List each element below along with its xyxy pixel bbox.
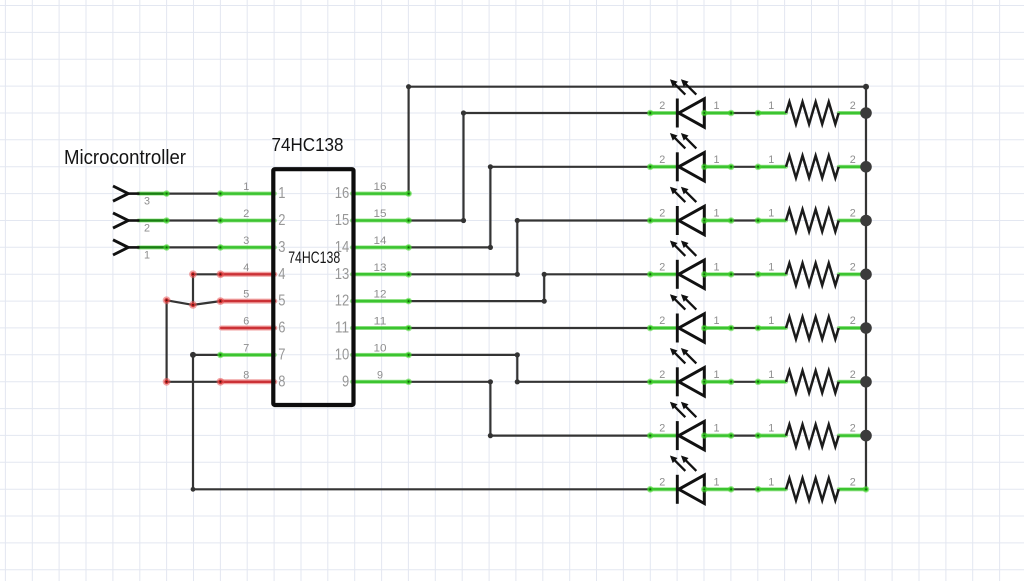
input arrow J2 (microcontroller pin) <box>113 213 140 228</box>
svg-text:74HC138: 74HC138 <box>272 134 344 155</box>
svg-text:1: 1 <box>713 261 719 273</box>
svg-text:2: 2 <box>850 154 856 166</box>
svg-text:10: 10 <box>335 347 350 364</box>
svg-text:11: 11 <box>374 316 387 328</box>
IC pin 10 leg <box>352 353 409 357</box>
wire red-net junction C down to junction D <box>166 300 168 382</box>
svg-text:2: 2 <box>659 154 665 166</box>
svg-text:1: 1 <box>713 369 719 381</box>
bend dot LED8 wire corner <box>191 487 196 492</box>
wire pin 9 (Y6) to LED7 <box>409 382 651 436</box>
svg-text:16: 16 <box>335 185 350 202</box>
IC pin 3 leg <box>220 245 274 249</box>
svg-text:4: 4 <box>243 262 249 274</box>
IC pin 14 leg <box>352 245 409 249</box>
green terminal pin 15 wire end <box>405 217 412 224</box>
svg-text:16: 16 <box>374 181 387 193</box>
green terminal LED3 anode <box>647 217 654 224</box>
svg-text:2: 2 <box>850 369 856 381</box>
wire red-net junction A to pin 4 wire end <box>193 273 220 275</box>
green terminal J3 leg end <box>163 244 170 251</box>
green terminal pin 12 wire end <box>405 298 412 305</box>
wire red-net junction C to junction B <box>167 300 193 305</box>
green terminal LED8 cathode pin <box>701 486 708 493</box>
svg-text:2: 2 <box>659 261 665 273</box>
svg-text:1: 1 <box>768 261 774 273</box>
green terminal pin 7 wire end <box>217 352 224 359</box>
input arrow J3 (microcontroller pin) <box>113 240 140 255</box>
wire input A2 to pin 3 <box>167 246 221 248</box>
green terminal pin 2 wire end <box>217 217 224 224</box>
green terminal LED5 wire end <box>728 325 735 332</box>
svg-text:12: 12 <box>374 289 387 301</box>
wire LED3 cathode to R3 <box>731 219 758 221</box>
wire pin 7 (Y7) to junction <box>193 354 220 356</box>
svg-text:74HC138: 74HC138 <box>288 249 340 267</box>
svg-text:2: 2 <box>659 476 665 488</box>
green terminal LED2 wire end <box>728 164 735 171</box>
wire input A0 to pin 1 <box>167 193 221 195</box>
IC U1 74HC138 body <box>273 169 353 405</box>
green terminal LED5 anode <box>647 325 654 332</box>
bend dot route 6 <box>515 218 520 223</box>
green terminal LED6 anode <box>647 379 654 386</box>
svg-text:2: 2 <box>659 423 665 435</box>
svg-text:2: 2 <box>659 208 665 220</box>
green terminal pin 1 wire end <box>217 190 224 197</box>
IC pin 12 leg <box>352 299 409 303</box>
svg-text:5: 5 <box>243 289 249 301</box>
IC pin 15 leg <box>352 218 409 222</box>
red terminal wire end <box>217 270 225 278</box>
svg-text:9: 9 <box>342 373 349 390</box>
wire LED4 cathode to R4 <box>731 273 758 275</box>
svg-text:6: 6 <box>243 316 249 328</box>
svg-text:2: 2 <box>243 208 249 220</box>
green terminal LED5 cathode pin <box>701 325 708 332</box>
svg-text:2: 2 <box>850 261 856 273</box>
svg-text:1: 1 <box>768 476 774 488</box>
red terminal wire end <box>217 297 225 305</box>
wire pin 11 (Y4) to LED5 <box>409 327 651 329</box>
red junction B <box>189 301 197 309</box>
svg-text:15: 15 <box>335 212 350 229</box>
LED8 <box>650 456 731 504</box>
resistor R6 <box>758 371 866 393</box>
svg-text:2: 2 <box>659 369 665 381</box>
svg-text:8: 8 <box>278 373 285 390</box>
svg-text:8: 8 <box>243 369 249 381</box>
IC pin 4 leg (E1, red) <box>220 272 274 277</box>
red junction D <box>163 378 171 386</box>
green terminal LED2 cathode pin <box>701 164 708 171</box>
resistor R2 <box>758 156 866 178</box>
IC pin 6 leg (E3, red stub) <box>221 326 275 331</box>
svg-text:1: 1 <box>144 249 150 261</box>
green terminal LED4 wire end <box>728 271 735 278</box>
svg-text:2: 2 <box>659 100 665 112</box>
bend dot top rail right corner <box>863 84 869 90</box>
bend dot route 10 <box>515 379 520 384</box>
svg-text:2: 2 <box>850 476 856 488</box>
svg-text:2: 2 <box>278 212 285 229</box>
svg-text:7: 7 <box>278 347 285 364</box>
wire LED1 cathode to R1 <box>731 112 758 114</box>
red junction A <box>189 270 197 278</box>
wire pin 16 VCC up to top rail <box>409 87 866 194</box>
svg-text:9: 9 <box>377 369 383 381</box>
wire pin 14 (Y1) to LED2 <box>409 167 651 248</box>
svg-text:Microcontroller: Microcontroller <box>64 146 186 169</box>
LED6 <box>650 348 731 396</box>
green terminal LED7 anode <box>647 432 654 439</box>
IC pin 13 leg <box>352 272 409 276</box>
green terminal R4 pin 1 <box>755 271 762 278</box>
green terminal LED3 cathode pin <box>701 217 708 224</box>
svg-text:11: 11 <box>335 320 350 337</box>
svg-text:1: 1 <box>768 369 774 381</box>
LED7 <box>650 402 731 450</box>
svg-text:13: 13 <box>335 266 350 283</box>
wire LED2 cathode to R2 <box>731 166 758 168</box>
green terminal pin 11 wire end <box>405 325 412 332</box>
wire LED8 cathode to R8 <box>731 488 758 490</box>
green terminal R7 pin 1 <box>755 432 762 439</box>
svg-text:15: 15 <box>374 208 387 220</box>
wire LED5 cathode to R5 <box>731 327 758 329</box>
bend dot route 8 <box>542 272 547 277</box>
junction dot bus row 4 <box>860 269 872 281</box>
svg-text:1: 1 <box>768 315 774 327</box>
IC pin 2 leg <box>220 218 274 222</box>
input arrow J2 leg <box>139 218 167 222</box>
svg-text:5: 5 <box>278 293 285 310</box>
green terminal LED1 wire end <box>728 110 735 117</box>
green terminal J2 leg end <box>163 217 170 224</box>
input arrow J1 leg <box>139 192 167 196</box>
bend dot route 9 <box>515 352 520 357</box>
svg-text:2: 2 <box>144 223 150 235</box>
green terminal pin 10 wire end <box>405 352 412 359</box>
svg-text:3: 3 <box>278 239 285 256</box>
IC pin 16 leg <box>352 192 409 196</box>
green terminal LED2 anode <box>647 164 654 171</box>
red terminal wire end <box>217 378 225 386</box>
svg-text:2: 2 <box>850 315 856 327</box>
svg-text:1: 1 <box>713 154 719 166</box>
svg-text:1: 1 <box>713 476 719 488</box>
resistor R1 <box>758 102 866 124</box>
wire pin 15 (Y0) to LED1 <box>409 113 651 221</box>
green terminal LED8 anode <box>647 486 654 493</box>
svg-text:1: 1 <box>243 181 249 193</box>
svg-text:4: 4 <box>278 266 285 283</box>
IC pin 7 leg <box>220 353 274 357</box>
LED2 <box>650 133 731 181</box>
bend dot route 5 <box>515 272 520 277</box>
wire LED7 cathode to R7 <box>731 435 758 437</box>
red junction C <box>163 296 171 304</box>
bend dot route 7 <box>542 299 547 304</box>
resistor R8 <box>758 478 866 500</box>
green terminal pin 13 wire end <box>405 271 412 278</box>
green terminal LED1 anode <box>647 110 654 117</box>
green terminal LED3 wire end <box>728 217 735 224</box>
wire LED6 cathode to R6 <box>731 381 758 383</box>
green terminal LED6 cathode pin <box>701 379 708 386</box>
LED1 <box>650 79 731 127</box>
wire red-net junction A down to junction B <box>192 274 194 305</box>
green terminal R5 pin 1 <box>755 325 762 332</box>
LED5 <box>650 294 731 342</box>
IC pin 11 leg <box>352 326 409 330</box>
resistor R5 <box>758 317 866 339</box>
bend dot route 1 <box>461 218 466 223</box>
junction dot pin7 net <box>190 352 196 358</box>
junction dot bus row 5 <box>860 322 872 334</box>
svg-text:1: 1 <box>713 208 719 220</box>
green terminal LED7 wire end <box>728 432 735 439</box>
wire VCC bus vertical rail <box>865 87 867 490</box>
green terminal LED8 wire end <box>728 486 735 493</box>
wire input A1 to pin 2 <box>167 219 221 221</box>
svg-text:7: 7 <box>243 342 249 354</box>
green terminal LED4 anode <box>647 271 654 278</box>
green terminal LED7 cathode pin <box>701 432 708 439</box>
green terminal pin 14 wire end <box>405 244 412 251</box>
green terminal R2 pin 1 <box>755 164 762 171</box>
junction dot bus row 7 <box>860 430 872 442</box>
green terminal R1 pin 1 <box>755 110 762 117</box>
green terminal LED1 cathode pin <box>701 110 708 117</box>
resistor R4 <box>758 263 866 285</box>
LED4 <box>650 241 731 289</box>
wire pin 13 (Y2) to LED3 <box>409 221 651 275</box>
svg-text:1: 1 <box>768 423 774 435</box>
LED3 <box>650 187 731 235</box>
svg-text:1: 1 <box>713 100 719 112</box>
green terminal pin 3 wire end <box>217 244 224 251</box>
input arrow J1 (microcontroller pin) <box>113 186 140 201</box>
green terminal R6 pin 1 <box>755 379 762 386</box>
green terminal LED4 cathode pin <box>701 271 708 278</box>
bend dot route 12 <box>488 433 493 438</box>
resistor R3 <box>758 209 866 231</box>
wire pin 10 (Y5) to LED6 <box>409 355 651 382</box>
wire red-net junction D to pin 8 wire end <box>167 381 221 383</box>
wire pin 12 (Y3) to LED4 <box>409 274 651 301</box>
IC pin 8 leg (GND, red) <box>220 379 274 384</box>
junction dot bus row 6 <box>860 376 872 388</box>
svg-text:2: 2 <box>850 100 856 112</box>
svg-text:2: 2 <box>850 423 856 435</box>
wire Y7 down and across to LED8 <box>193 355 650 489</box>
svg-text:2: 2 <box>659 315 665 327</box>
junction dot bus row 1 <box>860 107 872 119</box>
svg-text:1: 1 <box>768 208 774 220</box>
svg-text:3: 3 <box>144 196 150 208</box>
IC pin 1 leg <box>220 192 274 196</box>
junction dot bus row 2 <box>860 161 872 173</box>
green terminal LED6 wire end <box>728 379 735 386</box>
bend dot pin16 route top-left <box>406 84 411 89</box>
svg-text:12: 12 <box>335 293 350 310</box>
svg-text:1: 1 <box>713 423 719 435</box>
green terminal J1 leg end <box>163 190 170 197</box>
green terminal R3 pin 1 <box>755 217 762 224</box>
IC pin 5 leg (E2, red) <box>220 299 274 304</box>
IC pin 9 leg <box>352 380 409 384</box>
bend dot route 4 <box>488 164 493 169</box>
svg-text:1: 1 <box>768 154 774 166</box>
svg-text:10: 10 <box>374 342 387 354</box>
green terminal pin 16 wire end <box>405 190 412 197</box>
green terminal R8 pin 2 / bus end <box>863 486 870 493</box>
svg-text:1: 1 <box>713 315 719 327</box>
bend dot route 2 <box>461 110 466 115</box>
junction dot bus row 3 <box>860 215 872 227</box>
bend dot route 3 <box>488 245 493 250</box>
svg-text:1: 1 <box>768 100 774 112</box>
wire red-net junction B to pin 5 wire end <box>193 301 220 305</box>
input arrow J3 leg <box>139 245 167 249</box>
bend dot route 11 <box>488 379 493 384</box>
svg-text:6: 6 <box>278 320 285 337</box>
resistor R7 <box>758 425 866 447</box>
svg-text:13: 13 <box>374 262 387 274</box>
svg-text:1: 1 <box>278 185 285 202</box>
green terminal pin 9 wire end <box>405 379 412 386</box>
svg-text:3: 3 <box>243 235 249 247</box>
svg-text:14: 14 <box>335 239 350 256</box>
green terminal R8 pin 1 <box>755 486 762 493</box>
svg-text:2: 2 <box>850 208 856 220</box>
svg-text:14: 14 <box>374 235 387 247</box>
